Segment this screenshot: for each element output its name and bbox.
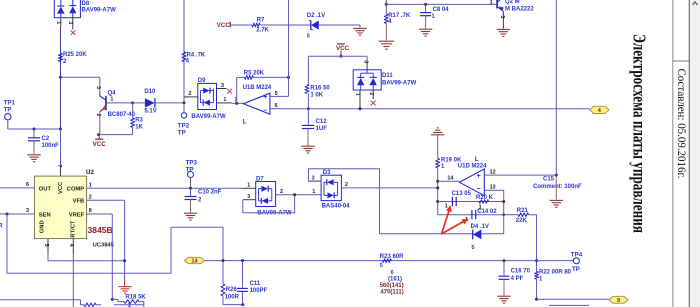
svg-text:VREF: VREF xyxy=(69,212,85,218)
svg-text:3: 3 xyxy=(95,86,101,89)
svg-text:D11: D11 xyxy=(382,73,393,79)
svg-text:R4 .7K: R4 .7K xyxy=(187,52,206,58)
svg-text:C10 2nF: C10 2nF xyxy=(198,190,222,196)
svg-text:6: 6 xyxy=(26,182,29,188)
svg-text:5: 5 xyxy=(275,91,278,97)
svg-text:D4 .1V: D4 .1V xyxy=(471,224,489,230)
svg-text:1: 1 xyxy=(110,97,113,103)
svg-text:8: 8 xyxy=(89,208,92,214)
svg-text:5: 5 xyxy=(471,245,474,251)
svg-text:Q2 M: Q2 M xyxy=(505,0,520,5)
svg-text:100R: 100R xyxy=(225,295,240,301)
svg-text:2: 2 xyxy=(280,189,283,195)
svg-text:COMP: COMP xyxy=(67,186,85,192)
svg-text:2.7K: 2.7K xyxy=(256,27,269,33)
svg-text:470(111): 470(111) xyxy=(380,290,403,296)
svg-text:3: 3 xyxy=(362,60,368,63)
svg-text:3845B: 3845B xyxy=(87,225,112,235)
svg-text:U1B M224: U1B M224 xyxy=(243,85,272,91)
svg-text:1: 1 xyxy=(490,0,493,6)
svg-text:6: 6 xyxy=(275,103,278,109)
svg-text:5: 5 xyxy=(43,244,49,247)
svg-text:1: 1 xyxy=(89,182,92,188)
svg-text:R: R xyxy=(0,223,3,230)
svg-text:TP: TP xyxy=(572,266,580,273)
svg-text:2: 2 xyxy=(89,194,92,200)
svg-text:5: 5 xyxy=(307,33,310,39)
svg-text:TP: TP xyxy=(178,130,186,137)
svg-text:D10: D10 xyxy=(144,89,156,95)
svg-text:VCC: VCC xyxy=(336,45,350,52)
svg-text:D7: D7 xyxy=(256,176,264,182)
svg-text:SEN: SEN xyxy=(39,212,51,218)
svg-text:R21: R21 xyxy=(517,208,529,214)
svg-text:OUT: OUT xyxy=(39,186,52,192)
svg-text:−: − xyxy=(263,108,267,115)
svg-text:BAS40-04: BAS40-04 xyxy=(322,204,351,210)
svg-text:1 0K: 1 0K xyxy=(310,93,323,99)
svg-text:C11: C11 xyxy=(250,281,261,287)
svg-text:U2: U2 xyxy=(86,169,94,176)
svg-text:D9: D9 xyxy=(198,78,206,84)
svg-text:VCC: VCC xyxy=(217,22,231,29)
svg-text:R22 00R 80: R22 00R 80 xyxy=(539,269,572,275)
svg-text:2: 2 xyxy=(368,92,374,95)
svg-text:Составлен: 05.09.2016г.: Составлен: 05.09.2016г. xyxy=(675,69,689,179)
svg-text:22K: 22K xyxy=(516,218,528,224)
svg-text:1: 1 xyxy=(312,189,315,195)
svg-text:5: 5 xyxy=(380,263,383,269)
svg-text:Электросхема платы управления: Электросхема платы управления xyxy=(630,34,650,233)
svg-text:BAV99-A7W: BAV99-A7W xyxy=(191,114,226,120)
svg-text:C2: C2 xyxy=(42,136,50,142)
svg-text:C15: C15 xyxy=(543,177,555,183)
svg-text:3: 3 xyxy=(221,83,224,89)
svg-text:R23 60R: R23 60R xyxy=(380,254,404,260)
svg-text:R26: R26 xyxy=(226,287,238,293)
svg-text:100nF: 100nF xyxy=(42,143,60,149)
svg-text:560(141): 560(141) xyxy=(380,283,404,289)
svg-text:U1D M224: U1D M224 xyxy=(458,163,487,169)
svg-text:3: 3 xyxy=(312,175,315,181)
svg-text:D3: D3 xyxy=(323,170,331,176)
svg-text:14: 14 xyxy=(447,176,453,182)
svg-text:R7: R7 xyxy=(257,18,265,24)
svg-text:RT/CT: RT/CT xyxy=(70,220,76,238)
svg-text:1: 1 xyxy=(445,204,448,210)
svg-text:9: 9 xyxy=(617,298,620,304)
svg-text:13: 13 xyxy=(490,185,496,191)
svg-text:Comment: 100nF: Comment: 100nF xyxy=(533,184,582,190)
svg-text:R25 20K: R25 20K xyxy=(63,52,87,58)
svg-text:4 PF: 4 PF xyxy=(511,276,524,282)
svg-text:14: 14 xyxy=(191,259,198,265)
svg-text:C14 02: C14 02 xyxy=(477,209,497,215)
svg-text:TP3: TP3 xyxy=(186,160,198,167)
svg-text:UC3845: UC3845 xyxy=(93,243,115,249)
svg-text:D2 .1V: D2 .1V xyxy=(307,13,325,19)
svg-text:1: 1 xyxy=(223,97,226,103)
svg-text:C16 70: C16 70 xyxy=(511,269,531,275)
svg-text:TP: TP xyxy=(4,107,12,114)
svg-text:M BA2222: M BA2222 xyxy=(505,7,534,13)
svg-text:L: L xyxy=(475,156,479,163)
svg-text:C8 04: C8 04 xyxy=(433,7,450,13)
svg-text:2: 2 xyxy=(95,113,101,116)
svg-text:7: 7 xyxy=(56,164,62,167)
svg-text:BAV99-A7W: BAV99-A7W xyxy=(257,211,292,217)
svg-text:3: 3 xyxy=(247,194,250,200)
svg-text:5.1V: 5.1V xyxy=(144,109,156,115)
svg-text:TP2: TP2 xyxy=(178,123,190,130)
svg-text:3: 3 xyxy=(499,15,505,18)
svg-text:1K: 1K xyxy=(135,124,143,130)
svg-text:GND: GND xyxy=(40,220,46,233)
svg-text:12: 12 xyxy=(490,169,496,175)
svg-text:6: 6 xyxy=(391,270,394,276)
svg-text:R18 5K: R18 5K xyxy=(125,295,146,301)
svg-text:+: + xyxy=(477,173,481,180)
svg-text:4: 4 xyxy=(68,244,74,247)
svg-text:VFB: VFB xyxy=(73,199,85,205)
svg-text:R16 50: R16 50 xyxy=(310,85,330,91)
svg-text:VCC: VCC xyxy=(93,141,107,148)
svg-text:L: L xyxy=(243,119,247,126)
svg-text:1UF: 1UF xyxy=(316,126,328,132)
svg-text:BAV99-A7W: BAV99-A7W xyxy=(82,8,117,14)
svg-text:VCC: VCC xyxy=(58,181,64,194)
svg-text:TP1: TP1 xyxy=(4,100,16,107)
svg-text:R3: R3 xyxy=(135,117,143,123)
svg-text:R5 20K: R5 20K xyxy=(244,71,265,77)
svg-text:1: 1 xyxy=(55,21,61,24)
svg-text:R17 .7K: R17 .7K xyxy=(388,13,411,19)
svg-text:3: 3 xyxy=(67,21,73,24)
svg-text:100PF: 100PF xyxy=(250,288,268,294)
svg-text:+: + xyxy=(263,94,267,101)
svg-text:2: 2 xyxy=(188,91,191,97)
svg-text:BAV99-A7W: BAV99-A7W xyxy=(382,80,417,86)
svg-text:−: − xyxy=(477,186,481,193)
svg-text:2: 2 xyxy=(345,182,348,188)
svg-text:1: 1 xyxy=(247,183,250,189)
svg-text:R20 K: R20 K xyxy=(476,195,494,201)
svg-text:(161): (161) xyxy=(388,277,402,283)
svg-text:C13 05: C13 05 xyxy=(452,191,472,197)
svg-text:D8: D8 xyxy=(82,1,90,7)
svg-text:1: 1 xyxy=(355,93,361,96)
svg-text:C12: C12 xyxy=(316,119,328,125)
svg-text:3: 3 xyxy=(26,208,29,214)
svg-text:BC807-40: BC807-40 xyxy=(108,112,136,118)
